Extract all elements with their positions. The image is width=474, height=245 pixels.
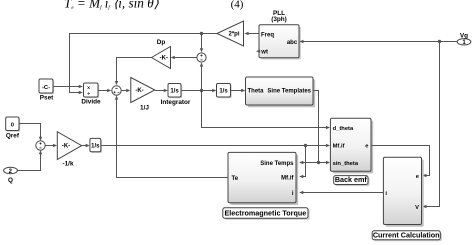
svg-text:sin_theta: sin_theta (333, 161, 359, 167)
svg-text:Te: Te (232, 176, 239, 182)
wire Vg junction down to V input of Current Calculation (425, 42, 439, 207)
arrow into e input (422, 174, 426, 177)
label Q (8, 177, 13, 184)
wire junction down to Dp sum top (201, 34, 203, 51)
wire Dp output down to torque sum top (117, 58, 152, 84)
svg-text:-K-: -K- (62, 144, 70, 150)
svg-text:-C-: -C- (42, 85, 50, 91)
sum junction S3 (reactive power sum) (36, 141, 45, 150)
label Pset (40, 94, 54, 101)
output stub arrow wt (256, 50, 260, 53)
wire Qref to Q sum top (19, 124, 41, 140)
arrow down into Q sum top (39, 137, 42, 141)
integrator block 1/s (Mf.if) (90, 138, 102, 153)
arrow into sin_theta input (326, 161, 330, 164)
arrow into Sine Temps input (299, 161, 303, 164)
integrator block 1/s (Integrator) (168, 84, 182, 99)
svg-text:1/s: 1/s (91, 144, 100, 150)
junction Vg node (438, 40, 441, 43)
svg-text:Mf.if: Mf.if (281, 175, 294, 181)
wire Mf.if line to Back emf (101, 145, 327, 147)
wire 1/J to Integrator (155, 90, 165, 92)
label Divide (81, 98, 101, 105)
arrow into d_theta input (326, 126, 330, 129)
arrow down into Dp sum top (200, 48, 203, 52)
label Qref (6, 132, 20, 139)
svg-text:Sine Templates: Sine Templates (267, 89, 311, 95)
wire Dp sum output to Dp gain (174, 57, 197, 59)
wire torque sum output to 1/J gain (121, 90, 127, 92)
svg-text:Te = Mf if ⟨i, sin θ̃⟩: Te = Mf if ⟨i, sin θ̃⟩ (64, 0, 160, 11)
wire Vg to PLL abc (302, 41, 457, 43)
arrow into Divide lower input (79, 91, 83, 94)
block PLL (3ph) subsystem (259, 25, 301, 60)
wire PLL Freq to 2*pi input (248, 33, 260, 35)
wire Te output back to torque sum bottom (117, 97, 229, 178)
svg-text:Divide: Divide (81, 98, 101, 105)
arrow into Mf.if input of Back emf (326, 144, 330, 147)
junction sine-template node (317, 161, 320, 164)
gain 2*pi triangle (left pointing) (217, 21, 244, 46)
wire Mf.if branch down to Electromagnetic Torque (302, 146, 305, 177)
wire Q to Q sum bottom (18, 152, 41, 171)
svg-text:1/J: 1/J (140, 105, 149, 112)
svg-text:1/s: 1/s (219, 88, 228, 94)
block Current Calculation subsystem (383, 157, 423, 227)
svg-text:Dp: Dp (157, 39, 166, 46)
gain -1/k triangle -K- (57, 132, 81, 160)
svg-text:÷: ÷ (87, 91, 90, 97)
wire Pset to Divide upper input (53, 86, 80, 88)
gain Dp triangle -K- (left pointing) (152, 47, 171, 69)
sum junction S1 (torque summing circle) (112, 86, 121, 95)
wire omega down and right to d_theta input (202, 91, 327, 128)
svg-text:V: V (415, 205, 419, 211)
integrator block 1/s second (theta) (217, 84, 232, 99)
junction on omega-ref line above Dp sum (200, 32, 203, 35)
label 1/J (140, 105, 149, 112)
gain 1/J triangle -K- (131, 78, 155, 103)
label box Electromagnetic Torque (223, 208, 310, 220)
junction Mf.if node (304, 144, 307, 147)
wire theta to Sine Templates (231, 90, 243, 92)
label PLL (3ph) (271, 10, 287, 23)
arrow into second 1/s (212, 89, 216, 92)
wire i output to Electromagnetic Torque i input (301, 192, 383, 194)
arrow into 1/J gain (126, 89, 130, 92)
svg-text:Current Calculation: Current Calculation (373, 231, 440, 240)
arrow up into Q sum bottom (39, 150, 42, 154)
svg-text:Freq: Freq (261, 32, 274, 38)
svg-text:Electromagnetic Torque: Electromagnetic Torque (225, 209, 307, 218)
arrow into 1/s integrator (86, 144, 90, 147)
wire omega-ref from 2*pi gain left to corner above Divide (70, 34, 218, 93)
arrow into Theta input (241, 89, 245, 92)
block Divide (84, 83, 100, 98)
arrow into torque sum left (107, 89, 111, 92)
svg-text:Theta: Theta (248, 89, 265, 95)
label Vg (460, 32, 468, 39)
wire Integrator output omega line (181, 90, 214, 92)
svg-text:Vg: Vg (460, 32, 468, 39)
input port Q oval 2 (4, 167, 18, 175)
svg-text:abc: abc (287, 40, 298, 46)
arrow down into torque sum top (115, 81, 118, 85)
svg-text:Back emf: Back emf (335, 175, 368, 184)
svg-text:-1/k: -1/k (62, 161, 73, 168)
wire sine template branch right to Back emf sin_theta (319, 162, 327, 164)
block Back emf subsystem (330, 118, 373, 173)
constant Qref block 0 (6, 117, 21, 132)
arrow up into torque sum bottom (115, 95, 118, 99)
input port Vg oval 1 (457, 39, 471, 47)
label box Current Calculation (372, 231, 442, 242)
svg-text:Mf.if: Mf.if (333, 144, 345, 150)
block Electromagnetic Torque subsystem (228, 152, 298, 205)
svg-text:(3ph): (3ph) (271, 16, 287, 23)
arrow into Integrator (164, 89, 168, 92)
label box Back emf (334, 175, 370, 186)
wire e output to Current Calculation e input (371, 146, 430, 176)
svg-text:d_theta: d_theta (333, 126, 354, 132)
svg-text:Sine Temps: Sine Temps (260, 161, 294, 167)
constant Pset block -C- (39, 79, 54, 94)
arrow up into Dp sum bottom (200, 62, 203, 66)
wire Sine Templates output down to sin_theta line (313, 91, 319, 163)
svg-text:Pset: Pset (40, 94, 54, 101)
arrow into 2*pi base (244, 32, 248, 35)
wire -1/k to 1/s (82, 145, 87, 147)
svg-text:2*pi: 2*pi (228, 32, 239, 38)
arrow into i input (299, 191, 303, 194)
equation caption Te = Mf if (i, sin theta) cut off at top (64, 0, 160, 11)
svg-text:Integrator: Integrator (161, 99, 191, 106)
svg-text:-K-: -K- (160, 56, 168, 62)
arrow into V input (422, 205, 426, 208)
wire omega junction up to Dp sum bottom (201, 64, 203, 91)
equation number (4) (231, 0, 244, 11)
sum junction S2 (frequency droop sum) (197, 53, 206, 62)
svg-text:(4): (4) (231, 0, 244, 11)
svg-text:-K-: -K- (135, 88, 143, 94)
block Sine Templates subsystem (246, 77, 316, 107)
label Dp (157, 39, 166, 46)
wire Q sum output to -1/k gain (45, 145, 54, 147)
junction omega node (200, 89, 203, 92)
arrow into PLL abc input (299, 40, 303, 43)
svg-text:1/s: 1/s (170, 88, 179, 94)
label -1/k (62, 161, 73, 168)
svg-text:0: 0 (11, 123, 14, 129)
wire Divide output to torque sum (98, 90, 108, 92)
arrow into -1/k gain (53, 144, 57, 147)
svg-text:Qref: Qref (6, 132, 20, 139)
arrow into Dp gain base (171, 56, 175, 59)
label Integrator (161, 99, 191, 106)
arrow into Mf.if input of Electromagnetic Torque (299, 175, 303, 178)
wire sine template branch left to Electromagnetic Torque (302, 162, 318, 164)
arrow into Divide upper input (79, 85, 83, 88)
svg-text:Q: Q (8, 177, 13, 184)
svg-text:wt: wt (260, 50, 268, 56)
